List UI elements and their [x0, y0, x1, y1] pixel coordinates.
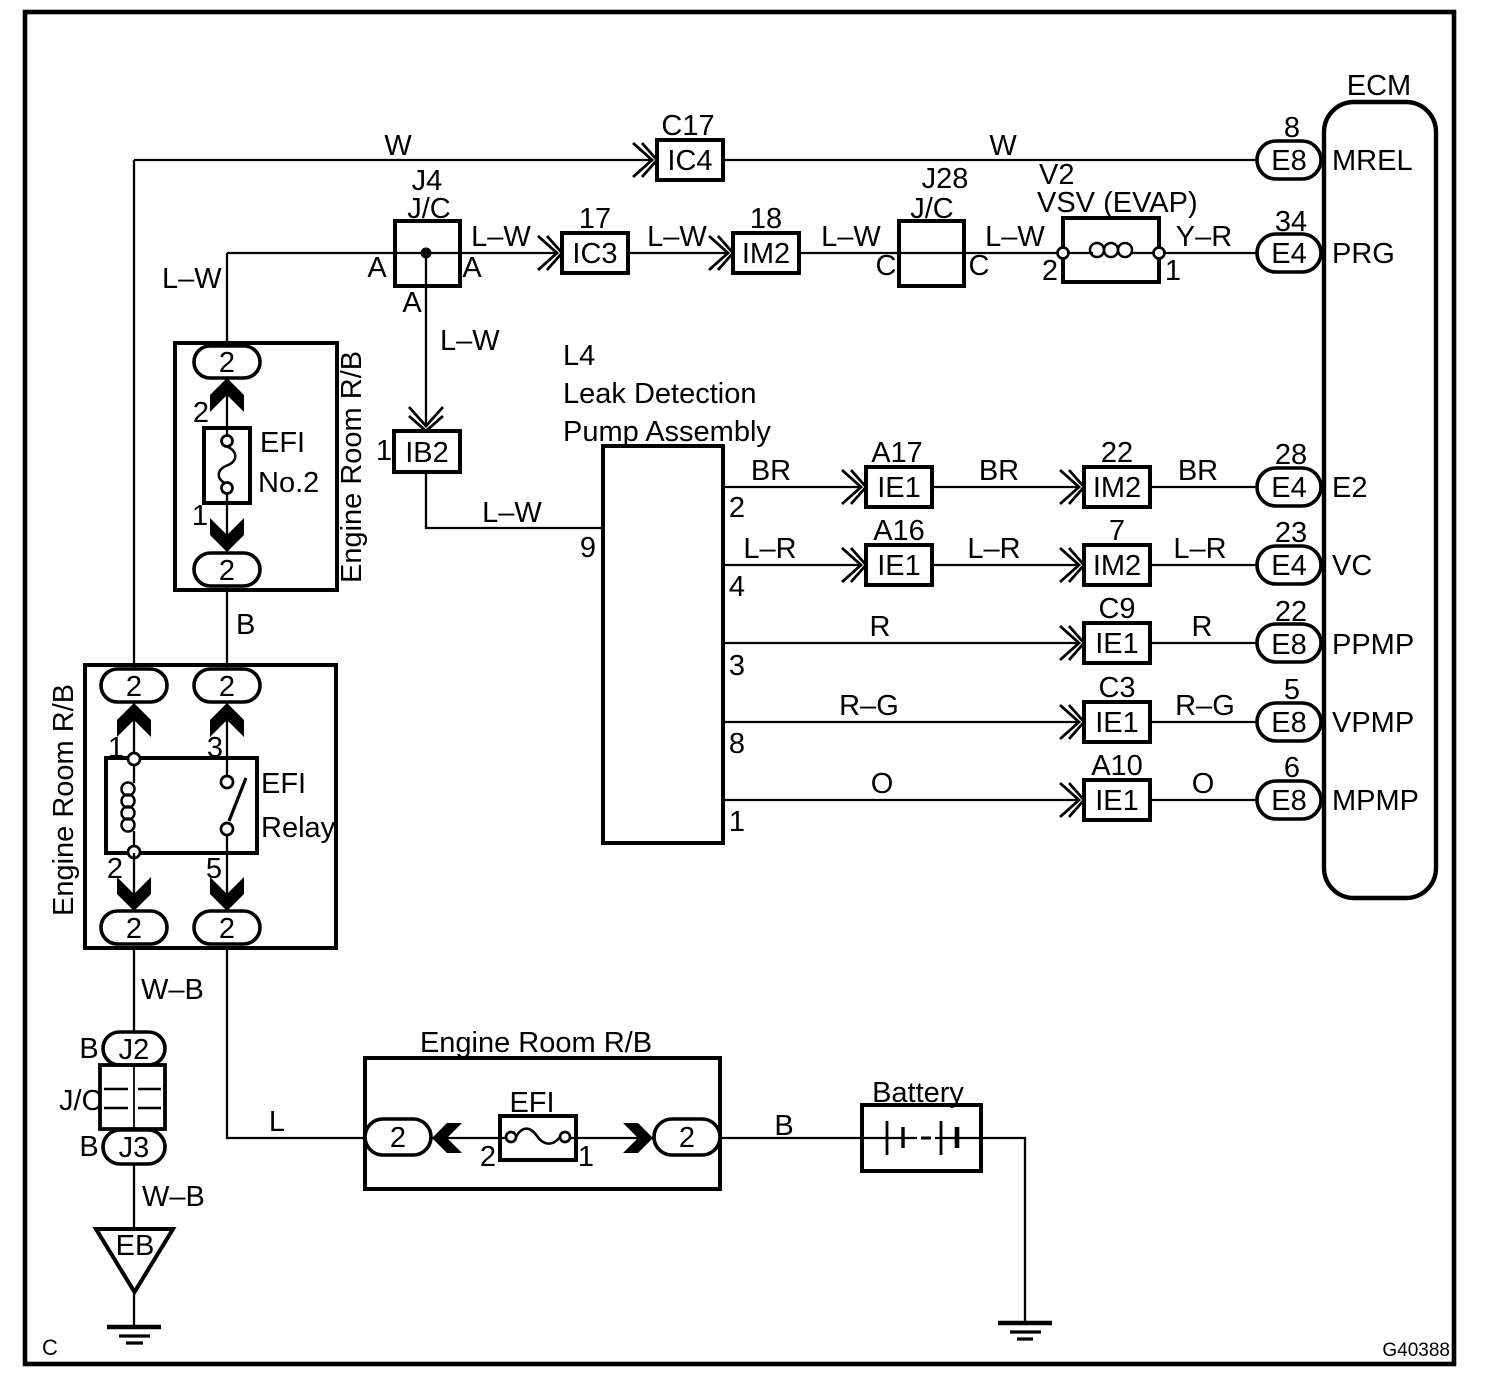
chevron into IE1 A10	[1060, 783, 1084, 817]
chevron into IE1 A17	[842, 470, 866, 504]
svg-text:2: 2	[219, 913, 235, 945]
svg-text:L–R: L–R	[1173, 533, 1226, 565]
connector 7 / IM2	[1084, 515, 1150, 585]
svg-text:E4: E4	[1271, 550, 1306, 582]
relay switch terminal top	[221, 776, 233, 788]
wire W-B (J3 to EB)	[133, 1164, 135, 1229]
svg-text:L–W: L–W	[162, 263, 222, 295]
svg-text:IE1: IE1	[877, 550, 921, 582]
svg-text:VPMP: VPMP	[1332, 707, 1414, 739]
black arrow up (relay left)	[117, 703, 151, 737]
svg-text:2: 2	[729, 492, 745, 524]
svg-text:R–G: R–G	[1175, 690, 1235, 722]
svg-text:J2: J2	[119, 1034, 150, 1066]
svg-text:G40388: G40388	[1382, 1340, 1450, 1361]
svg-text:5: 5	[206, 853, 222, 885]
svg-text:ECM: ECM	[1347, 70, 1411, 102]
svg-text:2: 2	[679, 1122, 695, 1154]
svg-text:1: 1	[1165, 255, 1181, 287]
svg-text:23: 23	[1275, 517, 1307, 549]
wire (EB to ground)	[133, 1292, 135, 1325]
svg-text:9: 9	[580, 532, 596, 564]
svg-text:IE1: IE1	[1095, 707, 1139, 739]
connector 22 / IM2	[1084, 437, 1150, 507]
relay switch bottom stub	[226, 835, 228, 853]
wire (arrow to fuse)	[226, 378, 228, 436]
relay switch terminal bottom	[221, 823, 233, 835]
svg-text:C3: C3	[1098, 672, 1135, 704]
svg-text:IC4: IC4	[667, 145, 712, 177]
svg-text:A17: A17	[871, 437, 923, 469]
svg-text:1: 1	[729, 806, 745, 838]
chevron into IM2 22	[1060, 470, 1084, 504]
svg-text:A: A	[402, 287, 422, 319]
wire L-W (IM2 to J28 to VSV)	[799, 252, 1058, 254]
junction dot in J4	[421, 248, 432, 259]
black arrow down (relay bottom left)	[117, 877, 151, 911]
svg-text:PRG: PRG	[1332, 238, 1395, 270]
chevron into IM2 7	[1060, 548, 1084, 582]
svg-text:L–W: L–W	[647, 221, 707, 253]
svg-text:2: 2	[219, 671, 235, 703]
wire B (R/B to battery)	[720, 1137, 862, 1139]
fuse EFI (bottom R/B)	[500, 1087, 576, 1160]
svg-text:2: 2	[193, 397, 209, 429]
svg-text:A: A	[367, 252, 387, 284]
svg-text:EFI: EFI	[261, 768, 306, 800]
ECM U1 block	[1324, 70, 1436, 898]
svg-text:W: W	[384, 130, 412, 162]
svg-text:R: R	[870, 611, 891, 643]
svg-text:IM2: IM2	[1093, 550, 1141, 582]
connector 18 / IM2	[733, 203, 799, 273]
chevron connector into IC4	[633, 143, 657, 177]
junction connector J28 J/C	[876, 163, 990, 286]
svg-text:IM2: IM2	[742, 238, 790, 270]
wire riser from W row down left side	[133, 160, 135, 669]
svg-text:E2: E2	[1332, 472, 1367, 504]
svg-text:C: C	[969, 250, 990, 282]
svg-text:B: B	[236, 609, 255, 641]
svg-text:L4: L4	[563, 340, 595, 372]
connector A10 / IE1	[1084, 750, 1150, 820]
svg-text:J3: J3	[119, 1132, 150, 1164]
wire (fuse to right oval)	[570, 1137, 654, 1139]
connector oval 2 (relay top right)	[194, 669, 260, 703]
wire R (pump pin3 to IE1)	[723, 642, 1079, 644]
svg-text:A: A	[462, 252, 482, 284]
svg-text:Pump Assembly: Pump Assembly	[563, 416, 771, 448]
svg-text:IE1: IE1	[1095, 785, 1139, 817]
wire (battery to ground)	[981, 1138, 1025, 1321]
svg-text:W: W	[989, 130, 1017, 162]
svg-text:E4: E4	[1271, 238, 1306, 270]
wire BR (pump pin2 to IE1)	[723, 486, 861, 488]
svg-text:18: 18	[750, 203, 782, 235]
connector oval 2 (bottom R/B left)	[365, 1119, 431, 1155]
relay switch blade	[229, 778, 246, 821]
connector E8 pin 5 (VPMP)	[1257, 674, 1321, 741]
svg-text:Engine Room R/B: Engine Room R/B	[336, 351, 368, 583]
wire BR (IE1 to IM2)	[932, 486, 1079, 488]
connector C3 / IE1	[1084, 672, 1150, 742]
connector 17 / IC3	[562, 203, 628, 273]
wire (arrow to relay box right)	[226, 702, 228, 777]
svg-text:C9: C9	[1098, 593, 1135, 625]
svg-text:E4: E4	[1271, 472, 1306, 504]
connector C9 / IE1	[1084, 593, 1150, 663]
connector E8 pin 22 (PPMP)	[1257, 596, 1321, 662]
svg-text:MREL: MREL	[1332, 145, 1413, 177]
ground symbol (left)	[107, 1327, 161, 1343]
svg-text:8: 8	[1284, 112, 1300, 144]
svg-text:IM2: IM2	[1093, 472, 1141, 504]
svg-text:2: 2	[219, 347, 235, 379]
svg-text:B: B	[79, 1131, 98, 1163]
connector oval 2 (relay bottom right)	[194, 911, 260, 945]
svg-text:VSV (EVAP): VSV (EVAP)	[1037, 187, 1198, 219]
svg-text:BR: BR	[1178, 455, 1218, 487]
black arrow down (EFI No.2 bottom)	[210, 518, 244, 552]
wire L-W (IC3 to IM2)	[628, 252, 728, 254]
svg-text:E8: E8	[1271, 145, 1306, 177]
svg-text:Leak Detection: Leak Detection	[563, 378, 756, 410]
svg-text:28: 28	[1275, 439, 1307, 471]
svg-text:L–W: L–W	[440, 325, 500, 357]
connector oval 2 (bottom R/B right)	[654, 1119, 720, 1155]
svg-text:2: 2	[390, 1122, 406, 1154]
connector oval 2 (relay top left)	[101, 669, 167, 703]
EFI Relay label	[261, 768, 336, 844]
black arrow up (EFI No.2 top)	[210, 378, 244, 412]
connector IB2 pin 1	[376, 431, 460, 472]
svg-text:O: O	[871, 768, 894, 800]
wire L-W (PRG row from left riser to J4 and through to IC3)	[227, 252, 557, 254]
engine room R/B block (EFI No.2 fuse)	[175, 343, 368, 590]
svg-text:L–W: L–W	[985, 221, 1045, 253]
svg-text:R–G: R–G	[839, 690, 899, 722]
svg-text:A16: A16	[873, 515, 925, 547]
svg-text:Y–R: Y–R	[1176, 221, 1232, 253]
wire (relay box to bottom arrows)	[134, 853, 227, 911]
svg-text:L–R: L–R	[743, 533, 796, 565]
wire riser into EFI No.2 (L-W)	[226, 253, 228, 346]
svg-text:E8: E8	[1271, 629, 1306, 661]
svg-text:2: 2	[126, 913, 142, 945]
connector E4 pin 34 (PRG)	[1257, 206, 1321, 272]
svg-text:C: C	[876, 250, 897, 282]
wire R-G (pump pin8 to IE1)	[723, 721, 1079, 723]
wire R-G (IE1 to E8-5)	[1150, 721, 1257, 723]
svg-text:J/C: J/C	[407, 193, 451, 225]
wire O (pump pin1 to IE1)	[723, 799, 1079, 801]
svg-text:A10: A10	[1091, 750, 1143, 782]
svg-text:EB: EB	[116, 1230, 155, 1262]
svg-text:L–R: L–R	[967, 533, 1020, 565]
svg-text:4: 4	[729, 571, 745, 603]
wire W-B (relay to J2)	[133, 948, 135, 1032]
svg-text:8: 8	[729, 728, 745, 760]
svg-text:2: 2	[107, 853, 123, 885]
connector oval 2 (relay bottom left)	[101, 911, 167, 945]
svg-text:2: 2	[219, 555, 235, 587]
chevron into IE1 C9	[1060, 626, 1084, 660]
engine room R/B block (EFI relay)	[48, 665, 336, 948]
svg-text:O: O	[1192, 768, 1215, 800]
wire Y-R (VSV to E4)	[1165, 252, 1257, 254]
connector E8 pin 6 (MPMP)	[1257, 752, 1321, 819]
wire R (IE1 to E8-22)	[1150, 642, 1257, 644]
svg-text:IE1: IE1	[877, 472, 921, 504]
svg-text:B: B	[79, 1033, 98, 1065]
solenoid valve V2 VSV (EVAP)	[1037, 159, 1198, 287]
svg-text:L: L	[269, 1106, 285, 1138]
connector E4 pin 28 (E2)	[1257, 439, 1321, 506]
svg-text:2: 2	[480, 1141, 496, 1173]
wire (fuse to bottom oval)	[226, 494, 228, 553]
battery BAT1	[862, 1077, 981, 1171]
svg-text:J28: J28	[922, 163, 969, 195]
svg-text:22: 22	[1275, 596, 1307, 628]
svg-text:7: 7	[1109, 515, 1125, 547]
wire L (relay to bottom R/B)	[227, 948, 365, 1138]
EFI relay box	[106, 758, 257, 853]
connector A16 / IE1	[866, 515, 932, 585]
wire L-W (IB2 down and right to pump pin 9)	[426, 472, 603, 528]
svg-text:E8: E8	[1271, 707, 1306, 739]
svg-text:5: 5	[1284, 674, 1300, 706]
svg-text:E8: E8	[1271, 785, 1306, 817]
relay coil terminal bottom	[128, 846, 140, 858]
svg-text:R: R	[1192, 611, 1213, 643]
relay coil terminal top	[128, 753, 140, 765]
svg-text:PPMP: PPMP	[1332, 629, 1414, 661]
svg-text:1: 1	[578, 1141, 594, 1173]
wire L-W drop from J4	[425, 253, 427, 425]
junction connector J/C (J2/J3)	[59, 1065, 165, 1129]
connector oval 2 (bottom of EFI No.2)	[194, 553, 260, 587]
engine room R/B block (EFI fuse, bottom)	[365, 1027, 720, 1189]
svg-text:BR: BR	[751, 455, 791, 487]
connector A17 / IE1	[866, 437, 932, 507]
svg-text:L–W: L–W	[482, 497, 542, 529]
connector C17 / IC4	[657, 110, 723, 180]
wire L-R (IE1 to IM2)	[932, 564, 1079, 566]
wire B (EFI No.2 to relay block)	[226, 586, 228, 669]
wire L-R (IM2 to E4-23)	[1150, 564, 1257, 566]
fuse EFI No.2	[204, 427, 319, 503]
svg-text:Engine Room R/B: Engine Room R/B	[420, 1027, 652, 1059]
ground symbol (battery)	[998, 1323, 1052, 1339]
svg-text:2: 2	[1042, 255, 1058, 287]
junction connector J4 J/C	[367, 193, 482, 319]
ground point EB triangle	[96, 1229, 173, 1292]
relay coil wire stubs	[133, 765, 135, 847]
wire BR (IM2 to E4-28)	[1150, 486, 1257, 488]
svg-text:No.2: No.2	[258, 467, 319, 499]
svg-text:IC3: IC3	[572, 238, 617, 270]
svg-text:MPMP: MPMP	[1332, 785, 1419, 817]
wire (arrow to relay box left)	[133, 702, 135, 754]
connector J2 oval	[103, 1032, 165, 1066]
wire L-R (pump pin4 to IE1)	[723, 564, 861, 566]
svg-text:1: 1	[376, 435, 392, 467]
wire W (MREL row, right segment)	[723, 159, 1257, 161]
chevron connector into IC3	[538, 236, 562, 270]
svg-text:6: 6	[1284, 752, 1300, 784]
svg-text:3: 3	[729, 650, 745, 682]
connector oval 2 (top of EFI No.2)	[194, 346, 260, 379]
connector E4 pin 23 (VC)	[1257, 517, 1321, 584]
svg-text:2: 2	[126, 671, 142, 703]
svg-text:B: B	[774, 1110, 793, 1142]
svg-text:L–W: L–W	[821, 221, 881, 253]
leak detection pump assembly L4	[563, 340, 771, 843]
chevron connector into IB2 (downward)	[409, 407, 443, 431]
wire O (IE1 to E8-6)	[1150, 799, 1257, 801]
black arrow right (bottom R/B)	[623, 1123, 653, 1153]
black arrow down (relay bottom right)	[210, 877, 244, 911]
svg-text:W–B: W–B	[141, 974, 204, 1006]
svg-text:22: 22	[1101, 437, 1133, 469]
black arrow up (relay right)	[210, 703, 244, 737]
chevron into IE1 A16	[842, 548, 866, 582]
svg-text:J/C: J/C	[59, 1085, 103, 1117]
wire (left oval to fuse)	[431, 1137, 506, 1139]
svg-text:VC: VC	[1332, 550, 1372, 582]
chevron into IE1 C3	[1060, 705, 1084, 739]
svg-text:J/C: J/C	[910, 193, 954, 225]
svg-text:C: C	[42, 1335, 58, 1360]
svg-text:1: 1	[192, 500, 208, 532]
svg-text:Relay: Relay	[261, 812, 336, 844]
connector J3 oval	[103, 1130, 165, 1164]
svg-text:EFI: EFI	[260, 427, 305, 459]
svg-text:IB2: IB2	[405, 437, 449, 469]
connector E8 pin 8 (MREL)	[1257, 112, 1321, 179]
svg-text:17: 17	[579, 203, 611, 235]
svg-text:IE1: IE1	[1095, 628, 1139, 660]
svg-text:C17: C17	[661, 110, 714, 142]
svg-text:W–B: W–B	[142, 1181, 205, 1213]
svg-text:BR: BR	[979, 455, 1019, 487]
wire W (MREL row, left segment)	[134, 159, 652, 161]
svg-text:L–W: L–W	[471, 221, 531, 253]
svg-text:34: 34	[1275, 206, 1307, 238]
relay coil	[122, 783, 135, 832]
svg-text:Engine Room R/B: Engine Room R/B	[48, 684, 80, 916]
black arrow left (bottom R/B)	[432, 1123, 462, 1153]
chevron connector into IM2	[709, 236, 733, 270]
